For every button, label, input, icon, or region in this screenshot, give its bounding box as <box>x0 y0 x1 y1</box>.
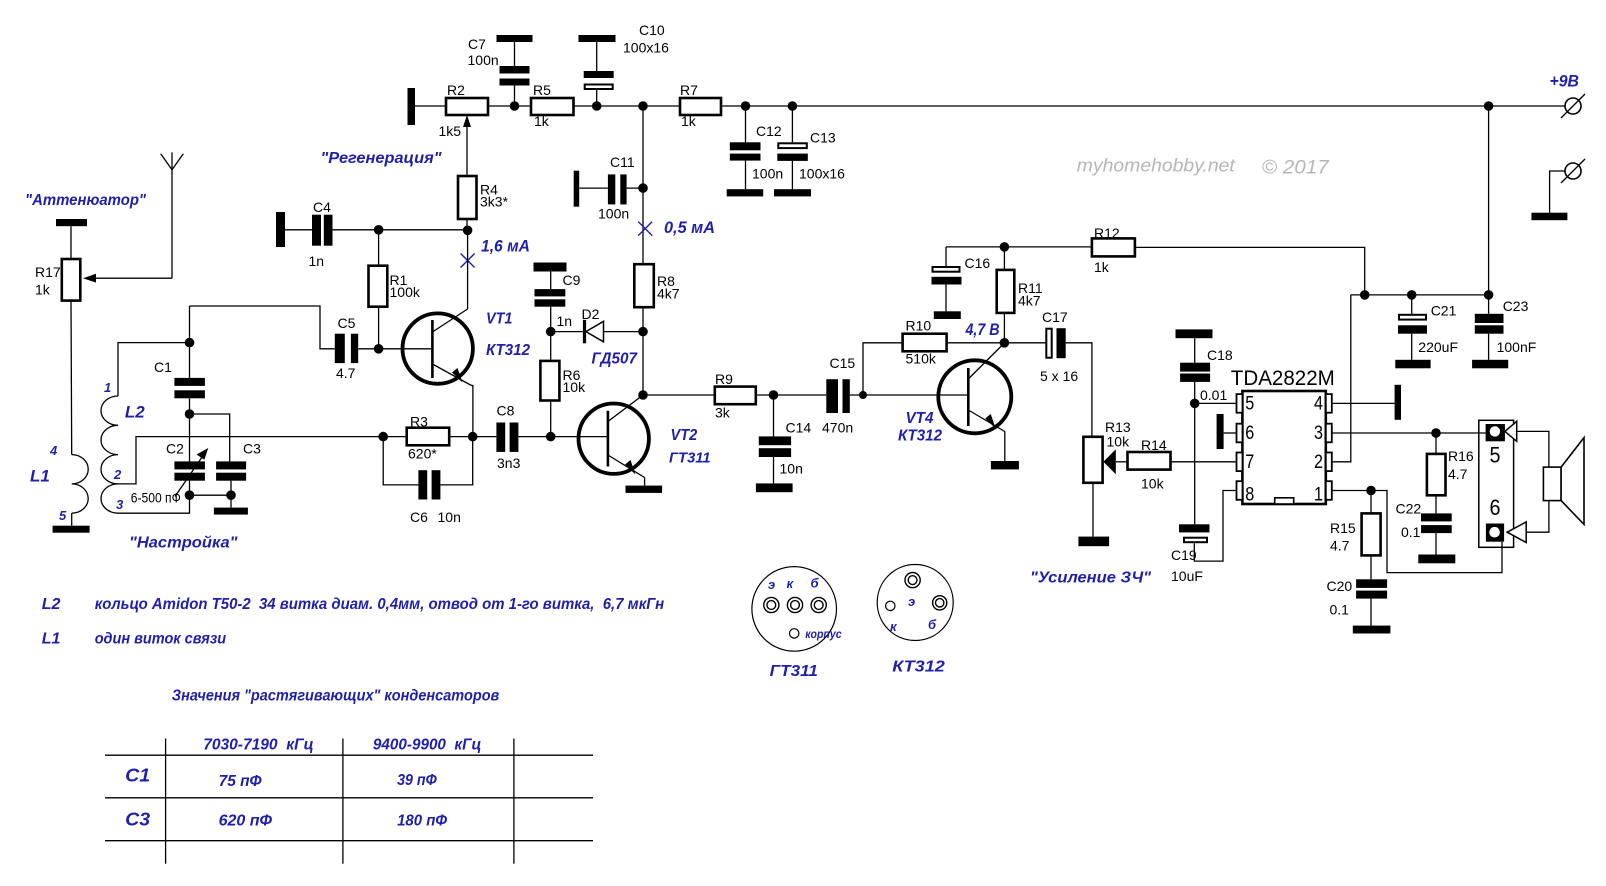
wire <box>574 105 681 107</box>
wire <box>415 105 446 107</box>
capacitor C4 <box>276 199 333 269</box>
junction <box>638 390 648 400</box>
wire to speaker + <box>1517 431 1549 467</box>
svg-text:3k: 3k <box>715 405 731 421</box>
wire <box>1435 533 1437 554</box>
svg-text:10k: 10k <box>563 379 587 395</box>
transistor VT4 КТ312 <box>938 343 1011 433</box>
capacitor C22 <box>1396 501 1452 541</box>
junction <box>1366 486 1376 496</box>
wire <box>190 306 335 349</box>
wire <box>596 90 598 106</box>
pin 2 tab <box>1326 453 1332 472</box>
resistor R10 <box>903 318 947 367</box>
svg-text:"Аттенюатор": "Аттенюатор" <box>25 192 146 209</box>
ground of GND terminal <box>1531 213 1567 221</box>
svg-text:кольцо Amidon T50-2 34 витка: кольцо Amidon T50-2 34 витка диам. 0,4мм… <box>95 596 665 613</box>
wire <box>1003 313 1005 343</box>
wire R12 to +9V node <box>1135 247 1365 295</box>
svg-text:VT2: VT2 <box>671 427 698 444</box>
ground bar left of R2 <box>408 88 416 125</box>
pin 5 tab <box>1237 394 1243 413</box>
arrow of variable capacitor C2 <box>175 448 208 497</box>
wire <box>1092 483 1094 537</box>
svg-text:10k: 10k <box>1107 434 1131 450</box>
svg-text:100n: 100n <box>598 206 629 222</box>
svg-text:э: э <box>768 577 775 592</box>
transistor VT1 КТ312 <box>403 309 473 386</box>
wire <box>946 246 1092 248</box>
pinout drawing КТ312 <box>877 565 953 641</box>
svg-text:VT1: VT1 <box>486 311 512 328</box>
junction <box>741 101 751 111</box>
wire +9V branch rail <box>1351 294 1489 296</box>
wire pin1 <box>1332 490 1371 492</box>
wire <box>1224 432 1237 434</box>
svg-text:10n: 10n <box>780 461 803 477</box>
wire <box>514 86 516 107</box>
connector pin 6 pad <box>1486 524 1504 542</box>
wire <box>466 219 468 230</box>
wire to C3 <box>190 414 230 461</box>
svg-text:VT4: VT4 <box>906 410 934 427</box>
pinout drawing ГТ311 <box>752 567 842 652</box>
wire to pin5 <box>1195 402 1237 404</box>
inductor L1 <box>72 455 89 514</box>
wire <box>189 481 191 496</box>
wire <box>1004 342 1046 344</box>
wire <box>642 188 644 264</box>
wire C19 to pin8 <box>1194 491 1236 562</box>
svg-text:180 пФ: 180 пФ <box>397 813 447 830</box>
svg-text:ГТ311: ГТ311 <box>669 450 711 467</box>
capacitor C19 (electrolytic) <box>1171 524 1210 584</box>
svg-text:100n: 100n <box>752 166 783 182</box>
ground C23 <box>1472 360 1508 369</box>
terminal +9B <box>1561 94 1585 118</box>
wire <box>1411 334 1413 360</box>
capacitor C2 (variable) <box>166 441 205 481</box>
capacitor C14 <box>759 420 812 477</box>
ground C21 <box>1395 360 1430 369</box>
notch <box>1275 498 1294 504</box>
wire +9V rail <box>721 105 1565 107</box>
wire <box>596 42 598 71</box>
wire <box>514 42 516 66</box>
resistor R7 <box>680 82 721 129</box>
junction <box>1000 242 1010 252</box>
svg-text:4: 4 <box>1314 394 1323 415</box>
svg-text:корпус: корпус <box>805 627 842 641</box>
wire C17 to R13 <box>1066 343 1092 437</box>
svg-text:620 пФ: 620 пФ <box>219 813 273 830</box>
svg-text:3k3*: 3k3* <box>480 194 509 210</box>
wire R14 to pin7 <box>1171 461 1237 463</box>
wire <box>1370 491 1372 514</box>
svg-text:КТ312: КТ312 <box>892 659 945 676</box>
resistor R2 (potentiometer) <box>439 82 489 139</box>
resistor R5 <box>531 82 574 129</box>
resistor R11 <box>997 270 1043 313</box>
svg-text:КТ312: КТ312 <box>486 342 530 359</box>
svg-text:3: 3 <box>1314 423 1323 444</box>
svg-text:C23: C23 <box>1503 298 1529 314</box>
svg-text:ГТ311: ГТ311 <box>770 663 818 680</box>
wire pin3 to output <box>1332 432 1486 434</box>
svg-text:10k: 10k <box>1141 476 1165 492</box>
ground VT4 emitter <box>991 461 1019 469</box>
capacitor C8 <box>496 403 520 472</box>
svg-text:"Регенерация": "Регенерация" <box>321 150 442 167</box>
capacitor C5 <box>335 315 358 381</box>
svg-text:0,5 мА: 0,5 мА <box>664 218 715 237</box>
capacitor C6 <box>410 470 461 525</box>
junction <box>185 338 195 348</box>
capacitor C20 <box>1327 578 1388 618</box>
wire <box>745 161 747 190</box>
svg-text:100n: 100n <box>468 52 499 68</box>
wire VT1 emitter to R3 node <box>472 386 473 437</box>
svg-text:R5: R5 <box>533 82 551 98</box>
svg-text:+9В: +9В <box>1550 72 1580 91</box>
antenna <box>161 152 184 278</box>
junction <box>638 183 648 193</box>
svg-text:C12: C12 <box>756 123 782 139</box>
junction <box>769 390 779 400</box>
svg-text:C11: C11 <box>610 154 635 170</box>
pin 6 tab <box>1237 424 1243 443</box>
svg-text:1: 1 <box>1314 484 1323 505</box>
ground VT2 emitter <box>626 486 663 493</box>
wire <box>550 401 552 437</box>
svg-text:КТ312: КТ312 <box>898 428 942 445</box>
svg-text:0.1: 0.1 <box>1401 524 1421 540</box>
wire <box>773 395 775 436</box>
svg-text:1n: 1n <box>309 253 325 269</box>
current mark x 1.6mA <box>461 254 475 268</box>
svg-text:C3: C3 <box>125 810 150 830</box>
wiper arrow R13 <box>1103 449 1127 474</box>
svg-text:0.1: 0.1 <box>1330 602 1350 618</box>
svg-text:TDA2822M: TDA2822M <box>1231 367 1335 390</box>
svg-text:7030-7190 кГц: 7030-7190 кГц <box>203 737 314 754</box>
svg-text:C22: C22 <box>1396 501 1422 517</box>
wire <box>945 247 947 267</box>
wire VT1 collector <box>467 230 469 309</box>
wire R8 to VT2 collector node <box>642 332 644 395</box>
svg-text:4k7: 4k7 <box>1018 293 1041 309</box>
svg-text:C10: C10 <box>639 22 665 38</box>
wire <box>378 230 380 266</box>
resistor R15 <box>1330 513 1381 555</box>
wire C6 to emitter node <box>440 437 472 485</box>
junction <box>1431 428 1441 438</box>
diode D2 ГД507 <box>582 306 604 343</box>
wire antenna to R17 wiper <box>83 274 172 283</box>
wire pin2 to +9V rail <box>1332 295 1351 462</box>
svg-text:C16: C16 <box>965 255 991 271</box>
capacitor C21 (electrolytic) <box>1398 303 1458 356</box>
wire pin1 to connector 6 <box>1371 491 1502 573</box>
resistor R6 <box>540 361 586 401</box>
wire R17 to L1 <box>70 301 73 455</box>
wire <box>551 331 583 333</box>
svg-text:75 пФ: 75 пФ <box>219 773 262 790</box>
svg-text:6: 6 <box>1490 495 1501 520</box>
capacitor C12 <box>730 123 783 182</box>
wire <box>189 398 191 414</box>
svg-text:5: 5 <box>1245 394 1254 415</box>
wire <box>745 106 747 142</box>
wire <box>642 307 644 331</box>
current mark x 0.5mA <box>638 222 652 236</box>
resistor R9 <box>715 371 756 421</box>
wire <box>1435 433 1437 454</box>
ground above R17 <box>56 219 87 226</box>
svg-text:1k: 1k <box>681 113 697 129</box>
wire <box>642 106 644 188</box>
wire <box>230 481 232 496</box>
svg-text:4.7: 4.7 <box>1448 466 1468 482</box>
resistor R4 <box>458 176 509 219</box>
wire <box>850 394 969 396</box>
svg-text:3n3: 3n3 <box>497 455 521 471</box>
ground C22 <box>1418 555 1455 564</box>
svg-text:4.7: 4.7 <box>1330 538 1350 554</box>
capacitor C9 <box>535 272 581 329</box>
wire <box>378 307 380 349</box>
ground above C9 <box>534 263 567 272</box>
wire <box>285 229 312 231</box>
svg-text:L2: L2 <box>42 596 61 613</box>
wire <box>1370 599 1372 626</box>
svg-text:1: 1 <box>104 380 111 395</box>
pin 3 tab <box>1326 424 1332 443</box>
svg-text:R14: R14 <box>1141 437 1167 453</box>
junction <box>1360 290 1370 300</box>
capacitor C10 (electrolytic) <box>579 22 670 89</box>
wire <box>604 331 644 333</box>
capacitor C16 (electrolytic) <box>932 255 991 285</box>
ground bar pin6 <box>1217 414 1224 449</box>
plug arrow top <box>1505 421 1517 441</box>
wire <box>1411 295 1413 314</box>
ground C3 <box>214 508 248 515</box>
svg-text:4k7: 4k7 <box>657 286 680 302</box>
svg-text:6: 6 <box>1245 423 1254 444</box>
pin 4 tab <box>1326 394 1332 413</box>
svg-text:10uF: 10uF <box>1171 568 1203 584</box>
resistor R14 <box>1128 437 1171 492</box>
svg-text:2: 2 <box>1314 452 1323 473</box>
svg-text:C14: C14 <box>786 420 812 436</box>
svg-text:C1: C1 <box>154 359 172 375</box>
junction <box>592 101 602 111</box>
wire <box>644 478 646 486</box>
svg-text:100nF: 100nF <box>1497 339 1537 355</box>
svg-text:L2: L2 <box>125 403 145 422</box>
svg-text:R16: R16 <box>1448 448 1474 464</box>
svg-text:© 2017: © 2017 <box>1262 158 1331 179</box>
svg-text:L1: L1 <box>30 467 50 486</box>
wire <box>70 226 72 259</box>
svg-text:б: б <box>928 617 937 632</box>
wire pin4 to ground <box>1332 402 1395 404</box>
junction <box>546 327 556 337</box>
capacitor C1 <box>154 359 205 398</box>
capacitor C17 (electrolytic) <box>1040 309 1078 384</box>
svg-text:4,7 В: 4,7 В <box>965 320 1000 339</box>
wire <box>945 285 947 312</box>
wire <box>1550 171 1565 213</box>
svg-text:100k: 100k <box>390 284 421 300</box>
svg-text:ГД507: ГД507 <box>592 351 639 368</box>
svg-text:C17: C17 <box>1042 309 1068 325</box>
capacitor C7 <box>468 35 533 86</box>
svg-text:100x16: 100x16 <box>799 166 845 182</box>
svg-text:C20: C20 <box>1327 578 1353 594</box>
svg-text:C21: C21 <box>1431 303 1457 319</box>
junction <box>226 490 236 500</box>
junction <box>859 391 867 399</box>
resistor R8 <box>634 264 679 307</box>
wire <box>947 342 1005 344</box>
wire <box>579 187 608 189</box>
wire <box>550 332 552 361</box>
wire <box>1488 295 1490 314</box>
wire <box>550 307 552 332</box>
junction <box>1190 399 1200 409</box>
svg-text:C2: C2 <box>166 441 184 457</box>
capacitor C11 <box>598 154 635 222</box>
svg-text:2: 2 <box>113 467 122 482</box>
svg-text:1k: 1k <box>35 282 51 298</box>
svg-text:1k5: 1k5 <box>439 123 462 139</box>
wire <box>1194 338 1196 363</box>
plug arrow bottom <box>1507 522 1526 543</box>
wire <box>1194 382 1196 404</box>
wire <box>773 457 775 483</box>
wire L2 tap pin2 to R3 <box>118 437 383 484</box>
svg-text:Значения "растягивающих" конде: Значения "растягивающих" конденсаторов <box>172 688 500 705</box>
connector pin 5 pad <box>1486 424 1505 441</box>
junction <box>463 226 473 236</box>
svg-text:C1: C1 <box>125 766 150 786</box>
junction <box>510 101 520 111</box>
svg-text:1n: 1n <box>557 313 573 329</box>
wire to speaker - <box>1526 501 1549 533</box>
pin 7 tab <box>1237 453 1243 472</box>
svg-text:D2: D2 <box>582 306 600 322</box>
junction <box>1484 290 1494 300</box>
IC U1 TDA2822M body <box>1242 391 1325 504</box>
capacitor C13 (electrolytic) <box>777 130 845 182</box>
junction <box>374 344 384 354</box>
junction <box>1407 290 1417 300</box>
speaker <box>1543 438 1584 525</box>
resistor R17 (attenuator pot) <box>35 259 80 301</box>
junction <box>374 225 384 235</box>
capacitor C23 <box>1475 298 1537 355</box>
junction <box>1484 101 1494 111</box>
wire <box>550 272 552 290</box>
wire <box>189 414 191 461</box>
svg-text:4.7: 4.7 <box>336 365 356 381</box>
svg-text:510k: 510k <box>906 351 937 367</box>
svg-text:3: 3 <box>116 497 124 512</box>
wire <box>383 436 407 438</box>
svg-text:R3: R3 <box>410 414 428 430</box>
inductor L2 <box>101 396 118 513</box>
wire +9V vertical <box>1488 106 1490 295</box>
resistor R3 <box>407 414 450 462</box>
connector outline <box>1479 420 1514 547</box>
svg-text:C15: C15 <box>830 355 856 371</box>
svg-text:9400-9900 кГц: 9400-9900 кГц <box>373 737 482 754</box>
svg-text:myhomehobby.net: myhomehobby.net <box>1077 156 1236 176</box>
junction <box>546 432 556 442</box>
svg-text:C3: C3 <box>243 441 261 457</box>
svg-text:C18: C18 <box>1207 347 1233 363</box>
junction <box>788 101 798 111</box>
pin 1 tab <box>1326 481 1332 500</box>
wiper arrow of R2 <box>463 115 471 176</box>
svg-text:6-500 пФ: 6-500 пФ <box>131 491 181 506</box>
pin 8 tab <box>1237 481 1243 500</box>
wire <box>230 495 232 507</box>
svg-text:10n: 10n <box>438 509 461 525</box>
wire <box>190 494 232 496</box>
resistor R16 <box>1427 448 1474 495</box>
svg-text:39 пФ: 39 пФ <box>397 772 437 789</box>
wire VT4 emitter <box>1004 432 1006 462</box>
ground bar pin4 <box>1395 385 1401 420</box>
ground C14 <box>756 483 793 492</box>
wire <box>1003 247 1005 270</box>
svg-text:э: э <box>908 594 915 609</box>
svg-text:C8: C8 <box>497 403 515 419</box>
svg-text:1k: 1k <box>534 113 550 129</box>
wire <box>518 436 608 438</box>
wire <box>71 513 73 526</box>
svg-text:"Настройка": "Настройка" <box>129 535 238 552</box>
ground C16 <box>934 311 961 319</box>
wire <box>791 106 793 142</box>
resistor R12 <box>1092 225 1135 275</box>
svg-text:5: 5 <box>59 508 67 523</box>
svg-text:C6: C6 <box>410 509 428 525</box>
wire <box>488 105 531 107</box>
capacitor C15 <box>822 355 855 436</box>
junction <box>378 432 388 442</box>
wire <box>333 229 468 231</box>
junction <box>468 432 478 442</box>
junction <box>1000 338 1010 348</box>
svg-text:L1: L1 <box>42 631 61 648</box>
svg-text:5: 5 <box>1490 443 1501 468</box>
wire <box>643 394 715 396</box>
svg-text:R9: R9 <box>715 371 733 387</box>
svg-text:R17: R17 <box>35 264 61 280</box>
svg-text:1,6 мА: 1,6 мА <box>481 237 530 256</box>
ground R13 <box>1078 537 1109 547</box>
svg-text:620*: 620* <box>408 446 437 462</box>
wire <box>1370 555 1372 579</box>
wire <box>791 161 793 189</box>
svg-text:C4: C4 <box>313 199 331 215</box>
transistor VT2 ГТ311 <box>579 395 649 478</box>
svg-text:R12: R12 <box>1094 225 1120 241</box>
